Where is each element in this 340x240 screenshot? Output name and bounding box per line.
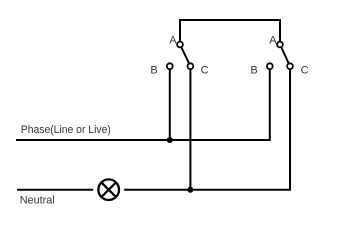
node: junction of S1-B with phase line [167, 137, 173, 143]
S1 terminal C [188, 63, 194, 69]
svg-text:A: A [169, 34, 177, 46]
node: junction of S1-C with neutral/lamp line [187, 187, 193, 193]
svg-text:C: C [301, 65, 309, 77]
S1 terminal A [177, 42, 183, 48]
svg-text:B: B [250, 65, 257, 77]
wire: S1 terminal B down to phase line [169, 66, 171, 140]
svg-text:Neutral: Neutral [20, 194, 55, 206]
wire: neutral line left segment to lamp [17, 189, 93, 191]
svg-text:B: B [150, 65, 157, 77]
svg-text:A: A [269, 34, 277, 46]
S1 terminal B [167, 63, 173, 69]
switch S1 blade A-C [180, 45, 190, 67]
wire: top rail linking A terminals of both switches [180, 20, 280, 45]
wire: phase line from left, up to S2 terminal B [16, 66, 270, 140]
svg-text:C: C [201, 65, 209, 77]
lamp L1 (circle with X) [98, 179, 119, 200]
wire: S1 terminal C down to lamp/neutral line [189, 66, 191, 190]
S2 terminal C [287, 63, 293, 69]
switch S2 blade A-C [280, 45, 290, 67]
wire: neutral line from lamp to right, up to S2 terminal C [124, 66, 290, 190]
svg-text:Phase(Line or Live): Phase(Line or Live) [21, 124, 111, 136]
S2 terminal A [277, 42, 283, 48]
S2 terminal B [267, 63, 273, 69]
